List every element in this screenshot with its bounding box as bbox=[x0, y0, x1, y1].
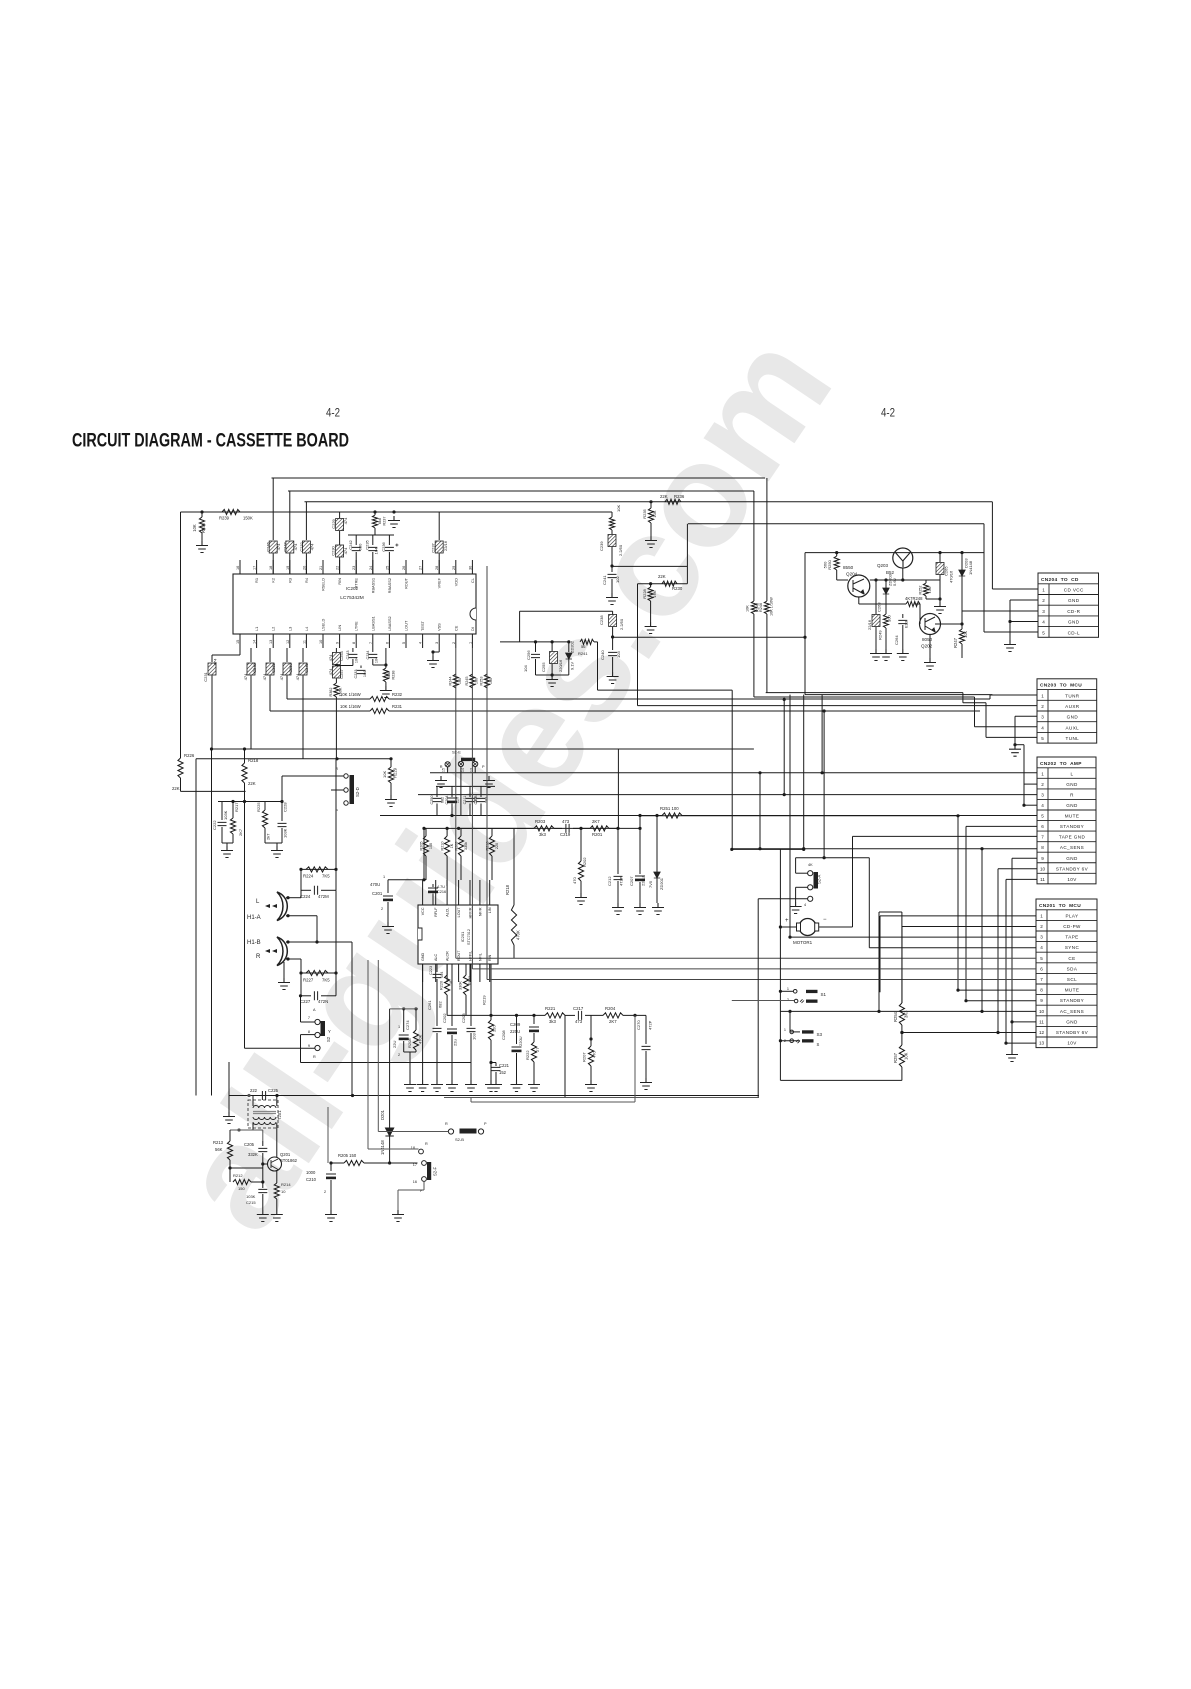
svg-text:R245: R245 bbox=[465, 676, 469, 685]
svg-text:L2: L2 bbox=[271, 627, 276, 631]
svg-text:C204: C204 bbox=[445, 795, 449, 804]
node C256 bbox=[534, 640, 537, 643]
svg-text:22: 22 bbox=[336, 566, 340, 570]
svg-text:C252: C252 bbox=[271, 662, 276, 672]
wire head A bottom bbox=[286, 915, 317, 917]
ground R235 bbox=[645, 536, 657, 548]
svg-text:30: 30 bbox=[468, 566, 472, 570]
resistor R225 bbox=[264, 802, 266, 811]
wire CN202 gnd9 bbox=[1012, 857, 1037, 859]
resistor R244 bbox=[453, 674, 458, 688]
svg-text:CN203 TO MCU: CN203 TO MCU bbox=[1040, 683, 1082, 689]
svg-text:C274: C274 bbox=[405, 1020, 410, 1030]
resistor R224 bbox=[306, 867, 328, 872]
wire CD-PW net bbox=[902, 926, 1036, 928]
wire S2-D mid bbox=[331, 789, 343, 791]
svg-text:Q204: Q204 bbox=[846, 572, 858, 577]
svg-text:10K: 10K bbox=[192, 524, 197, 532]
resistor R208 bbox=[415, 1009, 417, 1030]
svg-text:28: 28 bbox=[435, 566, 439, 570]
wire frame right drop bbox=[983, 524, 985, 632]
svg-text:16K: 16K bbox=[652, 590, 657, 597]
wire elbow C238 bbox=[520, 610, 613, 612]
svg-text:12: 12 bbox=[1039, 1030, 1045, 1035]
pin IC201 bottom ALC bbox=[435, 964, 437, 982]
svg-text:474: 474 bbox=[262, 673, 267, 680]
ground near C236 bbox=[388, 516, 400, 528]
wire CN202 gnd link bbox=[1023, 784, 1025, 805]
switch S2-D bbox=[344, 774, 348, 778]
wire 229 gnd stem bbox=[228, 1062, 230, 1112]
svg-text:R208: R208 bbox=[407, 1038, 412, 1048]
wire R230 row bbox=[638, 583, 688, 585]
ground C208 bbox=[511, 1080, 523, 1092]
svg-text:LSELD: LSELD bbox=[321, 618, 326, 631]
wire T201 top leads bbox=[252, 1096, 254, 1107]
svg-text:C246: C246 bbox=[266, 541, 271, 551]
svg-text:11: 11 bbox=[302, 640, 306, 644]
svg-text:2: 2 bbox=[324, 1190, 326, 1194]
wire AC_SENS net bbox=[732, 848, 1037, 850]
svg-text:104: 104 bbox=[355, 657, 359, 663]
capacitor C204 bbox=[451, 786, 453, 797]
svg-text:3: 3 bbox=[435, 642, 439, 644]
svg-text:R4: R4 bbox=[304, 577, 309, 583]
ground R229 bbox=[385, 795, 397, 807]
svg-text:472P: 472P bbox=[619, 876, 624, 886]
wire top bus B bbox=[288, 490, 754, 492]
capacitor C257 bbox=[335, 664, 338, 667]
svg-text:13: 13 bbox=[269, 640, 273, 644]
svg-text:D201: D201 bbox=[380, 1109, 385, 1120]
node R213 bot bbox=[228, 1166, 231, 1169]
svg-text:C261: C261 bbox=[427, 1000, 432, 1010]
pin IC201 bottom GND bbox=[422, 964, 424, 982]
wire S2A mid gnd bbox=[796, 886, 808, 888]
svg-text:C210: C210 bbox=[306, 1177, 317, 1182]
pin 13 IC202 bbox=[272, 634, 274, 648]
svg-text:7K5: 7K5 bbox=[322, 874, 330, 879]
svg-text:470U: 470U bbox=[370, 882, 380, 887]
svg-text:C215: C215 bbox=[246, 1200, 256, 1205]
wire CD-L bbox=[984, 631, 1038, 633]
node R207 top bbox=[589, 1037, 592, 1040]
node 640 816 bbox=[638, 814, 641, 817]
pin 11 IC202 bbox=[305, 634, 307, 648]
svg-text:R220: R220 bbox=[440, 981, 444, 990]
svg-text:4-2: 4-2 bbox=[881, 408, 895, 420]
svg-text:R244: R244 bbox=[449, 676, 453, 685]
capacitor C264 bbox=[902, 614, 904, 618]
svg-text:R254: R254 bbox=[893, 1011, 898, 1022]
tape head H1-A bbox=[277, 892, 287, 921]
svg-text:4K7R248: 4K7R248 bbox=[905, 596, 923, 601]
svg-text:4K: 4K bbox=[808, 863, 813, 867]
wire T201 out bbox=[327, 1107, 329, 1163]
svg-text:8: 8 bbox=[1040, 988, 1043, 993]
capacitor C238 bbox=[609, 615, 617, 627]
wire S2B left bbox=[378, 1131, 448, 1133]
svg-text:ALC: ALC bbox=[434, 953, 438, 961]
svg-text:C248: C248 bbox=[252, 662, 257, 672]
svg-text:102: 102 bbox=[615, 576, 620, 583]
wire R225 gnd rail bbox=[265, 842, 282, 844]
wire S1 p2 bbox=[732, 1000, 794, 1002]
pin 20 IC202 bbox=[305, 560, 307, 574]
node mid bus S2D bbox=[335, 757, 338, 760]
svg-text:T201: T201 bbox=[277, 1110, 282, 1120]
ground C222 bbox=[221, 846, 233, 858]
svg-text:22/16: 22/16 bbox=[867, 619, 872, 630]
svg-text:C203: C203 bbox=[461, 1013, 466, 1023]
svg-text:330k: 330k bbox=[464, 842, 468, 850]
svg-text:4: 4 bbox=[1041, 725, 1044, 730]
svg-text:R241: R241 bbox=[578, 651, 588, 656]
wire AC_SENS row bbox=[780, 1010, 1036, 1012]
wire Q203 emitter bbox=[902, 568, 904, 580]
svg-text:220/16: 220/16 bbox=[558, 659, 563, 672]
wire R212 row bbox=[229, 1168, 231, 1182]
switch S2-F bbox=[419, 1149, 424, 1154]
ground C264 bbox=[897, 649, 909, 661]
svg-text:474: 474 bbox=[328, 668, 333, 675]
capacitor C216 bbox=[428, 887, 438, 889]
svg-text:R204: R204 bbox=[605, 1006, 616, 1011]
svg-text:3k3: 3k3 bbox=[539, 832, 547, 837]
svg-text:4: 4 bbox=[1042, 620, 1045, 625]
resistor R233 col bbox=[611, 512, 613, 517]
capacitor C242 bbox=[355, 535, 357, 545]
svg-text:C208: C208 bbox=[501, 1030, 506, 1040]
pin IC201 top NF/R bbox=[479, 880, 481, 905]
svg-text:474: 474 bbox=[276, 543, 281, 550]
pin 10 IC202 bbox=[322, 634, 324, 648]
wire R227 rail bbox=[301, 972, 336, 974]
svg-text:4: 4 bbox=[1040, 945, 1043, 950]
ground C212 bbox=[612, 903, 624, 915]
switch S2 Y bbox=[315, 1019, 320, 1024]
resistor R232 bbox=[370, 696, 389, 701]
svg-text:3K3: 3K3 bbox=[904, 1010, 909, 1018]
svg-text:AC_SENS: AC_SENS bbox=[1060, 1009, 1084, 1014]
ground R219 bbox=[485, 1080, 497, 1092]
wire R232 net bbox=[287, 698, 370, 700]
svg-text:S2-B: S2-B bbox=[455, 1137, 464, 1142]
svg-text:R228: R228 bbox=[642, 588, 647, 598]
wire R231 net bbox=[270, 710, 370, 712]
svg-text:+: + bbox=[785, 918, 789, 924]
node R235 bbox=[649, 500, 652, 503]
svg-text:100: 100 bbox=[429, 843, 433, 849]
capacitor C212 bbox=[617, 828, 619, 874]
svg-text:R207: R207 bbox=[582, 1052, 587, 1062]
svg-text:R203: R203 bbox=[535, 819, 546, 824]
ground C202 bbox=[446, 1080, 458, 1092]
wire S1 p1 bbox=[780, 990, 793, 992]
svg-text:8: 8 bbox=[1041, 845, 1044, 850]
resistor R237 bbox=[373, 510, 376, 513]
pin IC201 bottom NF/L bbox=[479, 964, 481, 982]
resistor R236 bbox=[665, 499, 681, 504]
svg-text:ST01862: ST01862 bbox=[280, 1158, 298, 1163]
svg-text:GND: GND bbox=[1066, 782, 1078, 787]
svg-text:Q202: Q202 bbox=[921, 644, 933, 649]
pin 19 IC202 bbox=[289, 560, 291, 574]
wire 1009 rail bbox=[390, 1008, 418, 1010]
svg-text:14: 14 bbox=[253, 640, 257, 644]
wire STANDBY row bbox=[966, 1000, 1036, 1002]
wire C217 drop bbox=[564, 1015, 566, 1097]
wire SDA vert bbox=[471, 648, 473, 969]
connector CN203 TO MCU bbox=[1037, 679, 1097, 743]
pin IC201 top RFLF bbox=[435, 880, 437, 905]
capacitor C229 bbox=[339, 512, 341, 518]
capacitor C237 bbox=[438, 512, 440, 540]
svg-text:6: 6 bbox=[1040, 966, 1043, 971]
ground C265 bbox=[934, 602, 946, 614]
svg-text:16: 16 bbox=[413, 1180, 417, 1184]
svg-text:LOUT: LOUT bbox=[404, 620, 409, 631]
svg-text:R219: R219 bbox=[482, 995, 487, 1005]
svg-text:682: 682 bbox=[438, 1001, 443, 1008]
svg-text:K2: K2 bbox=[271, 578, 276, 583]
svg-text:R229: R229 bbox=[393, 767, 398, 778]
svg-text:R3: R3 bbox=[287, 578, 292, 583]
svg-text:R: R bbox=[256, 954, 261, 960]
svg-text:R246: R246 bbox=[759, 603, 763, 612]
svg-text:C270: C270 bbox=[636, 1020, 641, 1030]
svg-text:GND: GND bbox=[421, 952, 425, 961]
wire bus C right drop bbox=[991, 502, 993, 589]
wire C240 row bbox=[613, 636, 805, 638]
svg-text:H1-A: H1-A bbox=[247, 915, 261, 921]
ground C261 bbox=[431, 1080, 443, 1092]
svg-text:4: 4 bbox=[419, 642, 423, 644]
capacitor C247 bbox=[289, 491, 291, 540]
svg-text:C234: C234 bbox=[366, 650, 370, 659]
resistor R209 bbox=[460, 828, 462, 836]
resistor R212 bbox=[233, 1179, 251, 1184]
capacitor C243 bbox=[352, 648, 354, 652]
pin 30 IC202 bbox=[471, 560, 473, 574]
svg-text:8550: 8550 bbox=[843, 565, 854, 570]
svg-text:AC_SENS: AC_SENS bbox=[1060, 845, 1084, 850]
capacitor C201 bbox=[387, 880, 389, 893]
svg-text:R: R bbox=[313, 1055, 316, 1059]
svg-text:R202: R202 bbox=[582, 857, 587, 867]
svg-text:E23: E23 bbox=[904, 620, 909, 628]
svg-text:C216: C216 bbox=[437, 890, 446, 894]
svg-text:S3: S3 bbox=[817, 1032, 823, 1037]
resistor R250 bbox=[836, 553, 838, 556]
capacitor C234 bbox=[372, 648, 374, 652]
pin IC201 top ALCL bbox=[446, 880, 448, 905]
svg-text:R245: R245 bbox=[756, 603, 760, 612]
svg-text:6: 6 bbox=[385, 642, 389, 644]
svg-text:CN204 TO CD: CN204 TO CD bbox=[1041, 577, 1079, 583]
svg-text:C255: C255 bbox=[541, 662, 546, 672]
svg-text:11: 11 bbox=[1039, 1019, 1044, 1024]
capacitor C246 bbox=[272, 478, 274, 540]
svg-text:R210: R210 bbox=[441, 841, 445, 850]
svg-text:R231: R231 bbox=[392, 704, 403, 709]
wire 880 rail bbox=[388, 879, 424, 881]
svg-text:8: 8 bbox=[308, 1030, 310, 1034]
svg-text:R217: R217 bbox=[234, 802, 239, 812]
svg-text:152: 152 bbox=[499, 1070, 507, 1075]
connector CN204 TO CD bbox=[1038, 573, 1099, 637]
svg-text:R362: R362 bbox=[329, 687, 333, 696]
wire pin15 to C231 bbox=[239, 648, 241, 655]
svg-text:VSS: VSS bbox=[437, 623, 442, 631]
svg-text:473: 473 bbox=[575, 1019, 583, 1024]
svg-text:RBASS2: RBASS2 bbox=[387, 578, 392, 593]
wire MUTE long bbox=[640, 815, 958, 817]
svg-text:R257: R257 bbox=[893, 1052, 898, 1063]
svg-text:LC75342M: LC75342M bbox=[340, 595, 363, 601]
svg-text:25: 25 bbox=[385, 566, 389, 570]
wire Q202 collector bbox=[935, 623, 962, 625]
wire transistor frame top bbox=[688, 523, 984, 525]
wire bottom rail 2 bbox=[444, 1097, 759, 1099]
svg-text:24: 24 bbox=[369, 566, 373, 570]
pin 22 IC202 bbox=[339, 560, 341, 574]
svg-text:C212: C212 bbox=[607, 876, 612, 886]
svg-text:STANDBY 6V: STANDBY 6V bbox=[1056, 866, 1089, 871]
resistor R230 bbox=[662, 581, 677, 586]
capacitor C208 bbox=[516, 1015, 518, 1044]
pin 3 IC202 bbox=[438, 634, 440, 648]
svg-text:L3: L3 bbox=[287, 627, 292, 631]
svg-text:470K: 470K bbox=[418, 1034, 423, 1044]
wire mid bus 749 bbox=[212, 748, 754, 750]
svg-text:GND: GND bbox=[1066, 856, 1078, 861]
svg-text:3k3: 3k3 bbox=[549, 1019, 557, 1024]
node base b bbox=[884, 578, 887, 581]
wire motor left bbox=[780, 926, 796, 928]
capacitor C254 bbox=[335, 648, 337, 652]
svg-text:22K: 22K bbox=[660, 494, 668, 499]
svg-text:R224: R224 bbox=[303, 874, 314, 879]
wire MUTE net bbox=[958, 989, 1036, 991]
svg-text:2: 2 bbox=[381, 907, 383, 911]
wire bus A right drop bbox=[766, 478, 768, 601]
pin 14 IC202 bbox=[256, 634, 258, 648]
svg-text:10: 10 bbox=[1039, 1009, 1045, 1014]
svg-text:GND: GND bbox=[1068, 620, 1080, 625]
wire R net bbox=[418, 794, 1037, 796]
wire CD-R bbox=[962, 610, 1038, 612]
svg-text:474: 474 bbox=[213, 658, 218, 665]
svg-text:17: 17 bbox=[253, 566, 257, 570]
svg-text:2.2/50: 2.2/50 bbox=[619, 618, 624, 630]
wire C250 rail bbox=[436, 785, 495, 787]
wire top bus A bbox=[272, 477, 766, 479]
svg-text:C254: C254 bbox=[339, 650, 344, 660]
node Q rail c bbox=[960, 551, 963, 554]
svg-text:2K7: 2K7 bbox=[592, 819, 600, 824]
wire Q202 emitter bbox=[929, 635, 931, 659]
svg-text:2K7: 2K7 bbox=[609, 1019, 617, 1024]
resistor R362 bbox=[334, 683, 339, 697]
wire head R vert bbox=[335, 759, 337, 891]
svg-text:56K: 56K bbox=[215, 1147, 223, 1152]
wire 1095 rail bbox=[229, 1095, 759, 1097]
node R228 bbox=[649, 582, 652, 585]
wire R226 out bbox=[181, 790, 246, 792]
svg-text:22U: 22U bbox=[392, 1041, 397, 1048]
svg-text:CE: CE bbox=[453, 625, 458, 631]
pin 27 IC202 bbox=[422, 560, 424, 574]
wire drop 619 bbox=[617, 749, 619, 828]
wire STANDBY6V net bbox=[998, 868, 1037, 870]
wire S2F bottom bbox=[423, 1182, 425, 1191]
wire T201 sec leads bbox=[252, 1123, 254, 1130]
svg-text:220U: 220U bbox=[641, 876, 646, 886]
capacitor C221 bbox=[491, 1062, 496, 1064]
svg-text:C236: C236 bbox=[381, 541, 386, 551]
svg-text:220: 220 bbox=[492, 1025, 497, 1032]
wire AUXR bbox=[638, 705, 1038, 707]
wire TAPE GND net bbox=[853, 835, 1038, 837]
svg-text:472M: 472M bbox=[318, 894, 329, 899]
svg-text:AUXL: AUXL bbox=[1066, 725, 1080, 730]
svg-text:TEST: TEST bbox=[420, 620, 425, 631]
wire Q rail bottom bbox=[805, 694, 992, 696]
svg-text:23: 23 bbox=[352, 566, 356, 570]
capacitor C209 bbox=[533, 1015, 535, 1024]
svg-text:C257: C257 bbox=[339, 668, 344, 678]
svg-text:17: 17 bbox=[413, 1163, 417, 1167]
pin 9 IC202 bbox=[339, 634, 341, 648]
wire motor right bbox=[819, 926, 853, 928]
wire Q rail bbox=[805, 552, 984, 554]
svg-text:10V: 10V bbox=[1067, 1041, 1077, 1046]
svg-text:103: 103 bbox=[472, 1033, 477, 1040]
capacitor C231 bbox=[211, 655, 213, 662]
capacitor C205b bbox=[262, 1141, 264, 1146]
svg-text:S2-E: S2-E bbox=[452, 750, 461, 755]
svg-text:20: 20 bbox=[302, 566, 306, 570]
svg-text:5.6V: 5.6V bbox=[892, 577, 897, 586]
wire Q202 base bbox=[919, 604, 921, 624]
ground S2-F bbox=[392, 1210, 404, 1222]
svg-text:2: 2 bbox=[398, 1053, 400, 1057]
svg-text:TAPE GND: TAPE GND bbox=[1059, 835, 1086, 840]
wire GND pin drop bbox=[422, 964, 424, 1080]
svg-text:R249: R249 bbox=[878, 630, 883, 640]
svg-text:10K: 10K bbox=[652, 510, 657, 517]
svg-text:103: 103 bbox=[616, 651, 621, 658]
wire SCL net bbox=[487, 979, 1036, 981]
wire 803 drop bbox=[803, 695, 805, 850]
svg-text:C253: C253 bbox=[288, 662, 293, 672]
svg-text:220U: 220U bbox=[518, 1036, 523, 1046]
svg-text:103K: 103K bbox=[223, 810, 228, 820]
svg-text:S2-F: S2-F bbox=[433, 1166, 438, 1176]
svg-text:10K 1/16W: 10K 1/16W bbox=[770, 597, 774, 616]
capacitor C203 bbox=[470, 964, 472, 1026]
svg-text:R218: R218 bbox=[248, 758, 259, 763]
resistor R210 bbox=[446, 828, 448, 836]
svg-text:8050: 8050 bbox=[922, 637, 933, 642]
svg-text:ROUT: ROUT bbox=[404, 577, 409, 589]
svg-text:6k8: 6k8 bbox=[387, 672, 391, 678]
svg-text:STANDBY: STANDBY bbox=[1060, 824, 1084, 829]
svg-text:R: R bbox=[445, 1122, 448, 1126]
capacitor C205 220U bbox=[446, 880, 448, 886]
ground R214 bbox=[271, 1210, 283, 1222]
